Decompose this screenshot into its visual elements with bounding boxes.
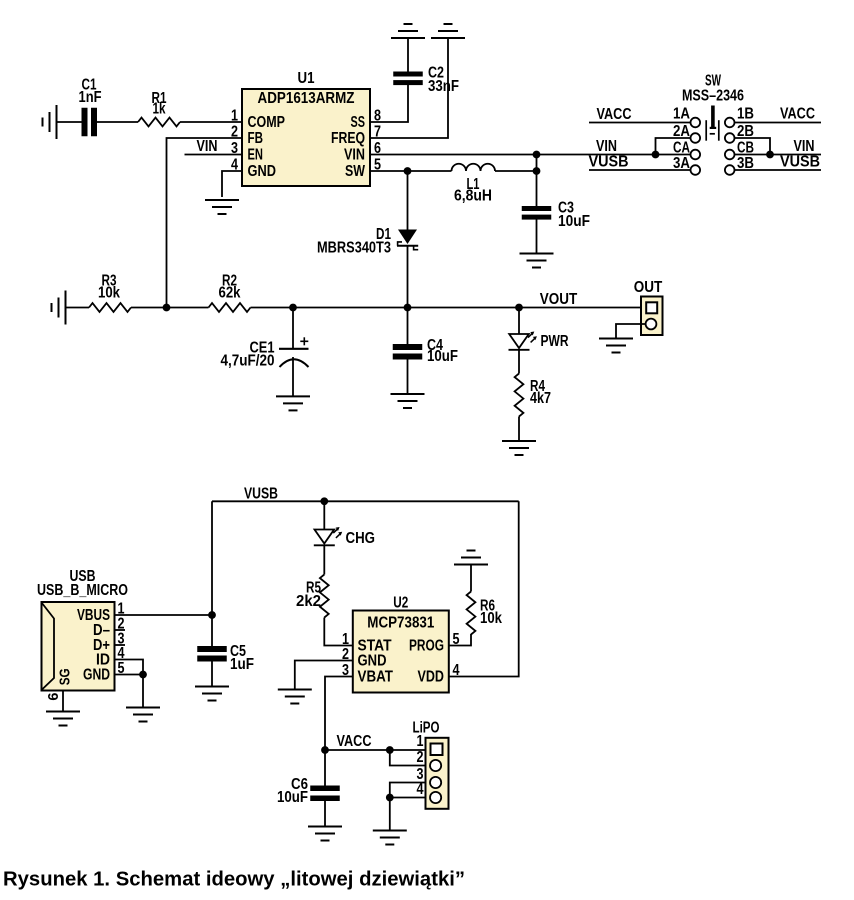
ground (left of R3) <box>52 291 66 325</box>
wire C2 to U1 pin8 SS <box>370 85 408 122</box>
svg-text:PROG: PROG <box>409 637 444 654</box>
svg-text:1: 1 <box>417 733 424 750</box>
svg-text:VOUT: VOUT <box>540 291 578 308</box>
wire R3 to R2 <box>131 307 209 309</box>
wire C3 to ground <box>536 220 538 254</box>
wire VUSB to switch 3A <box>589 169 691 171</box>
svg-text:SW: SW <box>345 163 365 180</box>
svg-text:VACC: VACC <box>337 733 372 750</box>
wire U1 pin4 GND <box>222 171 242 197</box>
resistor R3 <box>89 303 131 312</box>
svg-text:MSS–2346: MSS–2346 <box>682 88 744 105</box>
wire ground to C2 <box>407 38 409 72</box>
node FB junction <box>163 304 171 312</box>
wire R1 to U1 pin 1 <box>180 121 242 123</box>
wire U2 pin4 VDD to VUSB <box>449 501 519 676</box>
svg-text:4k7: 4k7 <box>530 390 551 407</box>
ground (C6) <box>308 827 342 841</box>
node L1/C3 <box>533 167 541 175</box>
ground (R4) <box>502 441 536 455</box>
svg-text:U2: U2 <box>393 595 408 612</box>
wire to ground (USB pin5) <box>142 675 144 708</box>
ground (left of C1) <box>43 105 57 139</box>
wire U1 pin6 VIN net <box>370 154 691 156</box>
wire U1 pin2 FB net <box>167 138 243 308</box>
ground (CE1) <box>276 396 310 410</box>
wire LiPO pin4 branch <box>390 797 430 799</box>
svg-text:VUSB: VUSB <box>780 154 820 171</box>
svg-text:ADP1613ARMZ: ADP1613ARMZ <box>258 90 355 107</box>
USB pin6 wire <box>62 691 64 712</box>
svg-text:VUSB: VUSB <box>589 154 629 171</box>
svg-text:VDD: VDD <box>418 668 445 685</box>
diode D1 MBRS340T3 <box>407 171 409 230</box>
resistor R1 <box>138 118 180 127</box>
wire C4 to ground <box>407 360 409 395</box>
wire 2B branch <box>735 138 771 155</box>
node ID/GND junction <box>139 671 147 679</box>
wire LED CHG to R5 <box>323 545 325 574</box>
resistor R6 <box>467 592 476 635</box>
switch pin circles right column <box>725 118 735 128</box>
node VACC/LiPO junction <box>386 746 394 754</box>
ground (OUT) <box>599 339 633 353</box>
connector LiPO pin 2 circle <box>430 760 441 771</box>
ground (U1 pin4) <box>205 200 239 214</box>
wire U1 pin5 SW <box>370 170 452 172</box>
wire LiPO pin2 branch <box>390 750 430 766</box>
node C5/VBUS junction <box>208 611 216 619</box>
svg-text:FB: FB <box>248 130 264 147</box>
svg-text:2A: 2A <box>673 123 690 140</box>
node LiPO gnd junction <box>386 794 394 802</box>
wire switch 1B to VACC right <box>735 122 822 124</box>
svg-text:1uF: 1uF <box>230 656 254 673</box>
wire VOUT line <box>251 307 643 309</box>
LED PWR <box>518 308 520 335</box>
svg-text:SS: SS <box>351 114 366 131</box>
op-amp U1 ADP1613ARMZ body <box>242 89 370 186</box>
svg-text:33nF: 33nF <box>428 78 459 95</box>
node PWR junction <box>515 304 523 312</box>
wire switch CB to VIN right <box>735 154 822 156</box>
capacitor CE1 4,7uF/20 (electrolytic) <box>292 308 294 349</box>
wire ground to U1 pin7 FREQ <box>370 38 448 138</box>
svg-text:3B: 3B <box>737 155 754 172</box>
wire VACC to switch 1A <box>589 122 691 124</box>
svg-text:COMP: COMP <box>248 114 286 131</box>
svg-text:USB_B_MICRO: USB_B_MICRO <box>37 582 128 599</box>
svg-text:GND: GND <box>358 652 387 669</box>
wire node to C3 <box>536 171 538 206</box>
svg-text:6: 6 <box>45 693 62 701</box>
connector USB USB_B_MICRO body <box>42 602 115 691</box>
node VIN junction <box>533 151 541 159</box>
svg-text:SG: SG <box>57 668 74 685</box>
wire USB pin4 ID <box>115 660 144 675</box>
wire USB pin2 stub <box>115 629 126 631</box>
wire U2 pin2 GND <box>295 661 353 690</box>
wire to ground (LiPO) <box>389 798 391 831</box>
svg-text:CHG: CHG <box>346 530 376 547</box>
svg-text:10uF: 10uF <box>277 789 308 806</box>
node 2B/CB junction <box>766 151 774 159</box>
connector LiPO pin 1 square <box>431 744 443 756</box>
wire R5 to U2 STAT <box>324 618 353 646</box>
node SW/D1 <box>404 167 412 175</box>
wire R4 to ground <box>518 417 520 442</box>
wire switch 3B to VUSB right <box>735 169 822 171</box>
ground (C4) <box>391 394 425 408</box>
resistor R5 <box>320 575 329 618</box>
ground (top right) <box>431 24 465 38</box>
wire U1 pin3 EN stub, net VIN <box>185 154 243 156</box>
inductor L1 <box>452 164 496 171</box>
wire U2 pin5 PROG to R6 <box>449 634 471 646</box>
svg-text:2B: 2B <box>737 123 754 140</box>
node VIN to L1 output <box>536 155 538 172</box>
capacitor C2 <box>393 72 423 77</box>
svg-text:VIN: VIN <box>344 146 365 163</box>
wire LiPO pin3 branch <box>390 783 430 798</box>
svg-text:PWR: PWR <box>541 333 569 350</box>
connector LiPO pin 3 circle <box>430 777 441 788</box>
svg-text:CA: CA <box>673 140 690 157</box>
svg-text:VBAT: VBAT <box>358 668 394 685</box>
svg-text:VIN: VIN <box>596 138 617 155</box>
resistor R2 <box>209 303 251 312</box>
svg-text:VUSB: VUSB <box>244 485 278 502</box>
ground (U2 GND) <box>278 690 312 704</box>
wire L1 to C3 node <box>495 170 537 172</box>
connector OUT pin 2 circle <box>646 319 657 330</box>
connector LiPO body <box>426 738 449 809</box>
wire U2 pin3 VBAT to VACC <box>325 677 353 751</box>
wire R6 to ground above <box>470 565 472 592</box>
wire VUSB down to C5 node <box>211 501 213 615</box>
svg-text:1nF: 1nF <box>79 89 102 106</box>
svg-text:10uF: 10uF <box>558 213 590 230</box>
svg-text:10k: 10k <box>480 610 502 627</box>
ground (above C2) <box>391 24 425 38</box>
ground (above R6) <box>454 551 488 565</box>
capacitor C1 <box>82 108 88 137</box>
svg-text:VIN: VIN <box>794 138 815 155</box>
wire C5 to ground <box>211 662 213 687</box>
wire OUT pin2 to ground <box>616 324 646 339</box>
resistor R4 <box>515 374 524 417</box>
svg-text:VACC: VACC <box>780 106 815 123</box>
wire ground to R3 <box>66 307 90 309</box>
op-amp U2 MCP73831 body <box>353 611 449 693</box>
ground (USB pin6) <box>46 712 80 726</box>
wire VACC net <box>325 749 426 751</box>
wire VUSB net bottom <box>212 500 519 502</box>
wire C6 to ground <box>324 801 326 827</box>
wire D1 to VOUT line <box>407 247 409 308</box>
switch pin circles left column <box>691 118 701 128</box>
ground (LiPO) <box>373 831 407 845</box>
wire CE1 to ground <box>292 357 294 396</box>
capacitor C3 <box>522 206 552 211</box>
svg-text:1A: 1A <box>673 106 690 123</box>
wire 2A branch <box>656 138 691 155</box>
node CE1 junction <box>289 304 297 312</box>
node VACC/C6 junction <box>321 746 329 754</box>
svg-text:62k: 62k <box>219 285 241 302</box>
svg-text:1k: 1k <box>153 101 166 118</box>
connector OUT body <box>641 297 663 336</box>
node C4 junction <box>404 304 412 312</box>
svg-text:MCP73831: MCP73831 <box>367 615 434 632</box>
svg-text:Rysunek 1. Schemat ideowy „lit: Rysunek 1. Schemat ideowy „litowej dziew… <box>3 869 465 891</box>
ground (C5) <box>195 687 229 701</box>
svg-text:MBRS340T3: MBRS340T3 <box>317 240 391 257</box>
svg-text:FREQ: FREQ <box>331 130 365 147</box>
svg-text:4,7uF/20: 4,7uF/20 <box>221 353 275 370</box>
svg-text:OUT: OUT <box>634 279 663 296</box>
svg-text:GND: GND <box>83 666 110 683</box>
wire USB pin3 stub <box>115 644 126 646</box>
svg-text:GND: GND <box>248 163 277 180</box>
LED CHG <box>323 501 325 529</box>
switch actuator symbol <box>706 106 719 141</box>
wire USB pin1 VBUS to C5 node <box>115 614 213 616</box>
wire C1 to R1 <box>97 121 138 123</box>
capacitor C4 <box>407 308 409 345</box>
capacitor C5 <box>211 615 213 646</box>
svg-text:U1: U1 <box>298 70 315 87</box>
ground (C3) <box>520 254 554 268</box>
svg-text:CB: CB <box>737 140 754 157</box>
ground (USB GND) <box>126 708 160 722</box>
svg-text:10uF: 10uF <box>427 348 458 365</box>
wire LED to R4 <box>518 350 520 374</box>
svg-text:10k: 10k <box>98 285 120 302</box>
node 2A/CA junction <box>652 151 660 159</box>
svg-text:2: 2 <box>417 749 424 766</box>
svg-text:2k2: 2k2 <box>296 593 321 610</box>
svg-text:1B: 1B <box>737 106 754 123</box>
svg-text:3A: 3A <box>673 155 690 172</box>
svg-text:VIN: VIN <box>197 138 218 155</box>
svg-text:EN: EN <box>248 146 264 163</box>
svg-text:1: 1 <box>231 108 238 125</box>
capacitor C6 <box>324 750 326 786</box>
wire USB pin5 GND <box>115 674 144 676</box>
connector OUT pin 1 square <box>646 302 657 313</box>
connector LiPO pin 4 circle <box>430 792 441 803</box>
node CHG junction <box>320 497 328 505</box>
svg-text:4: 4 <box>417 781 424 798</box>
wire ground to C1 <box>57 121 82 123</box>
svg-text:VACC: VACC <box>597 106 632 123</box>
svg-text:6,8uH: 6,8uH <box>454 188 492 205</box>
